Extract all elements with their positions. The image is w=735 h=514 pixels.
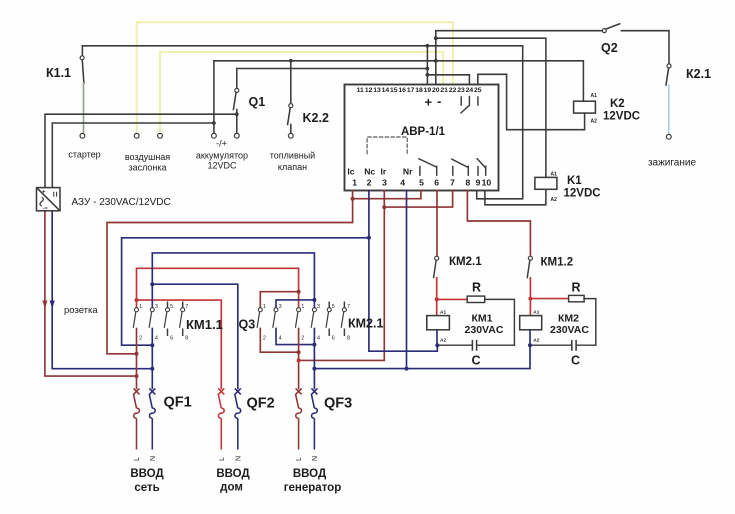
svg-text:-=: -=	[43, 206, 48, 212]
wire: Q3 pole2 top link	[276, 300, 314, 308]
svg-text:A1: A1	[440, 309, 446, 315]
wire: Q3 pole1 top link	[260, 292, 298, 308]
svg-text:9: 9	[476, 178, 481, 188]
svg-text:A2: A2	[440, 337, 446, 343]
breaker QF3	[296, 388, 302, 449]
svg-text:КМ1: КМ1	[472, 313, 493, 325]
wire: pin20 riser and Q2 feed	[436, 31, 603, 85]
wire: pin5 to pin1 link	[353, 191, 421, 199]
wire: charger - output to battery minus	[52, 123, 214, 187]
svg-text:3: 3	[155, 304, 158, 310]
svg-text:1: 1	[352, 178, 357, 188]
svg-text:6: 6	[332, 336, 335, 342]
svg-text:топливный: топливный	[270, 151, 315, 161]
contact: internal pins 9-10	[477, 159, 486, 175]
wire: navy line KM2.1 pole2 to KM2 A2	[314, 345, 530, 368]
svg-text:11: 11	[357, 87, 364, 94]
svg-text:QF2: QF2	[247, 396, 275, 412]
contact KM2.1 pole2	[311, 304, 320, 342]
arrow: socket plug neutral	[50, 301, 55, 309]
wire: pin1 Ic to QF1 pole1 (dark red)	[107, 191, 353, 354]
contact Q3 pole2	[273, 304, 282, 342]
svg-text:Nг: Nг	[403, 167, 413, 177]
svg-text:КМ1.1: КМ1.1	[186, 317, 223, 332]
wire: pin19 riser	[426, 46, 428, 85]
wire: pin2 tee to QF1 pole2	[122, 238, 369, 345]
svg-text:8: 8	[347, 336, 350, 342]
svg-text:2: 2	[263, 336, 266, 342]
svg-text:Q2: Q2	[601, 41, 618, 55]
svg-text:стартер: стартер	[68, 150, 100, 160]
wire: pin9 to +12V bus	[477, 46, 523, 199]
svg-text:ВВОД: ВВОД	[293, 468, 326, 480]
wire: pin20 to K1 coil A1	[436, 38, 546, 177]
svg-text:3: 3	[317, 304, 320, 310]
svg-text:12VDC: 12VDC	[564, 188, 601, 200]
svg-text:КМ2.1: КМ2.1	[348, 317, 383, 331]
wire: Q1 top to pin19 riser	[237, 68, 428, 70]
svg-text:2: 2	[367, 178, 372, 188]
switch K2.2	[290, 61, 292, 104]
svg-text:230VAC: 230VAC	[465, 324, 504, 336]
svg-text:14: 14	[382, 87, 390, 94]
svg-text:заслонка: заслонка	[128, 163, 166, 173]
contact KM2.1 aux (coil circuit)	[435, 256, 439, 260]
node: battery plus terminal	[234, 133, 239, 138]
svg-text:8: 8	[185, 336, 188, 342]
svg-text:R: R	[472, 281, 481, 295]
resistor R of KM1 circuit	[437, 298, 468, 300]
dashed link Nc-Ng	[367, 137, 407, 154]
wire: socket neutral from charger (navy)	[52, 211, 152, 369]
node: starter terminal	[80, 133, 85, 138]
wire: Q3 pole1 bottom link	[260, 329, 298, 353]
svg-text:19: 19	[424, 87, 432, 94]
block ABP-1/1	[345, 85, 499, 191]
wire: pale blue ignition wire	[668, 86, 670, 135]
contact KM1.1 pole3	[164, 302, 173, 342]
contact: internal pins 7-8	[452, 159, 469, 175]
svg-text:К1.1: К1.1	[46, 66, 71, 80]
wire: yellow air-damper wire 1	[137, 22, 453, 133]
svg-text:N: N	[312, 456, 319, 461]
switch Q2	[602, 29, 606, 33]
svg-text:12: 12	[365, 87, 373, 94]
svg-text:C: C	[471, 354, 480, 368]
junction dots	[135, 197, 533, 378]
svg-text:230VAC: 230VAC	[550, 324, 589, 336]
node: fuel valve terminal	[288, 133, 293, 138]
svg-text:4: 4	[279, 336, 282, 342]
wire: pin3 Ig to generator phase node	[299, 191, 385, 361]
wire: pin19 to pin24	[427, 75, 469, 85]
resistor R of KM2 circuit	[530, 298, 568, 300]
svg-text:-: -	[437, 94, 441, 109]
svg-text:АЗУ - 230VAC/12VDC: АЗУ - 230VAC/12VDC	[72, 197, 171, 208]
svg-text:5: 5	[332, 304, 335, 310]
wire: charger + output to Q1 bottom	[45, 114, 237, 187]
relay coil K1	[535, 177, 557, 189]
svg-text:12VDC: 12VDC	[207, 161, 237, 171]
coil KM2 230VAC	[529, 299, 531, 316]
svg-text:4: 4	[317, 336, 320, 342]
svg-text:КМ2.1: КМ2.1	[449, 256, 482, 268]
wire: KM2.1 pole2 bottom to QF3	[313, 329, 315, 389]
svg-text:7: 7	[185, 304, 188, 310]
svg-text:КМ1.2: КМ1.2	[541, 257, 574, 269]
wire: Q3 pole2 bottom link	[276, 329, 314, 345]
svg-text:сеть: сеть	[134, 482, 159, 494]
contact KM1.1 pole2	[149, 304, 158, 342]
arrow: socket plug live	[42, 301, 47, 309]
node: air damper terminal 2	[158, 133, 163, 138]
wire: KM2.1 pole1 bottom to QF3	[298, 329, 300, 389]
svg-text:10: 10	[482, 178, 492, 188]
svg-text:дом: дом	[220, 482, 243, 494]
svg-text:15: 15	[390, 87, 398, 94]
breaker QF2	[218, 388, 224, 449]
svg-text:16: 16	[398, 87, 406, 94]
svg-text:2: 2	[301, 336, 304, 342]
contact KM1.2 aux (coil circuit)	[528, 256, 532, 260]
svg-text:Nc: Nc	[364, 167, 375, 177]
svg-text:L: L	[219, 457, 226, 461]
svg-text:A1: A1	[551, 171, 558, 177]
svg-text:QF1: QF1	[164, 395, 192, 411]
wire: pin2 Nc riser to KM1 A2	[369, 191, 437, 352]
svg-text:7: 7	[347, 304, 350, 310]
svg-text:K2.2: K2.2	[303, 111, 329, 125]
junction dots black	[212, 36, 438, 125]
wire: yellow air-damper wire 2	[160, 52, 443, 133]
svg-text:N: N	[235, 456, 242, 461]
svg-text:25: 25	[474, 87, 482, 94]
svg-text:A1: A1	[533, 309, 539, 315]
QF terminal L/N marks	[134, 456, 319, 461]
capacitor C of KM1 circuit	[437, 344, 514, 346]
svg-text:L: L	[134, 457, 141, 461]
svg-text:клапан: клапан	[278, 162, 307, 172]
svg-text:17: 17	[407, 87, 415, 94]
svg-text:A2: A2	[551, 197, 558, 203]
svg-text:1: 1	[263, 304, 266, 310]
svg-text:1: 1	[139, 304, 142, 310]
wire: KM1.1 pole1 bottom to QF1	[136, 329, 138, 389]
wire: K1 A2 to pin10	[485, 189, 546, 205]
svg-text:розетка: розетка	[64, 305, 98, 316]
switch K1.1	[81, 46, 83, 56]
svg-text:генератор: генератор	[284, 482, 341, 494]
charger AZU box	[37, 188, 61, 211]
svg-text:4: 4	[400, 178, 405, 188]
wire: red branch to QF2 pole1	[137, 300, 222, 388]
svg-text:2: 2	[139, 336, 142, 342]
svg-text:АВР-1/1: АВР-1/1	[401, 126, 446, 138]
svg-text:Ic: Ic	[347, 167, 354, 177]
wire: socket live from charger (dark red)	[45, 211, 137, 376]
contact KM1.1 pole4	[180, 302, 189, 342]
wire: pin6 to KM2.1 coil contact	[436, 191, 438, 256]
svg-text:N: N	[150, 456, 157, 461]
contact Q3 pole1	[257, 304, 266, 342]
svg-text:12VDC: 12VDC	[603, 111, 640, 123]
svg-text:23: 23	[457, 87, 465, 94]
svg-text:аккумулятор: аккумулятор	[196, 151, 248, 161]
contact KM2.1 pole4	[341, 302, 350, 342]
svg-text:C: C	[571, 354, 580, 368]
capacitor C of KM2 circuit	[530, 344, 596, 346]
svg-text:R: R	[572, 281, 581, 295]
switch Q1	[236, 69, 238, 89]
svg-text:8: 8	[466, 178, 471, 188]
svg-text:3: 3	[279, 304, 282, 310]
svg-text:7: 7	[450, 178, 455, 188]
contact: internal pins 5-6	[419, 159, 437, 175]
wire: red phase bus KM1.1 to KM2.1	[137, 268, 299, 307]
svg-text:24: 24	[466, 87, 474, 94]
svg-text:зажигание: зажигание	[648, 158, 697, 169]
contact: internal changeover pins 23-24-25	[461, 97, 478, 113]
wire: green starter wire	[83, 83, 85, 133]
wire: pin7 to pin3	[384, 191, 452, 208]
svg-text:Q3: Q3	[239, 318, 256, 332]
svg-text:21: 21	[440, 87, 448, 94]
svg-text:+: +	[425, 95, 433, 110]
svg-text:КМ2: КМ2	[558, 313, 579, 325]
svg-text:5: 5	[419, 178, 424, 188]
svg-text:6: 6	[434, 178, 439, 188]
wire: K2 A2 to pin25	[478, 74, 585, 129]
node: battery minus terminal	[212, 133, 217, 138]
svg-text:K1: K1	[567, 175, 582, 187]
svg-text:Iг: Iг	[381, 167, 387, 177]
node: ignition terminal	[666, 134, 671, 139]
svg-text:Q1: Q1	[249, 95, 266, 109]
ABP bottom pin labels	[347, 167, 413, 177]
wire: +12V bus K1.1 to pin19/pin9 riser	[82, 45, 522, 47]
node: air damper terminal 1	[134, 133, 139, 138]
contact KM2.1 pole1	[295, 304, 304, 342]
svg-text:QF3: QF3	[324, 396, 352, 412]
svg-text:3: 3	[382, 178, 387, 188]
wire: pin4 Ng riser	[406, 191, 408, 369]
wire: minus bus to K2 coil A1	[214, 61, 584, 101]
contact KM1.1 pole1	[133, 304, 142, 342]
relay coil K2	[574, 101, 596, 113]
svg-text:A2: A2	[591, 118, 598, 124]
svg-text:воздушная: воздушная	[125, 152, 170, 162]
wire: navy neutral bus KM1.1 to KM2.1	[152, 253, 314, 308]
contact KM2.1 pole3	[326, 302, 335, 342]
svg-text:ВВОД: ВВОД	[216, 468, 249, 480]
svg-text:1: 1	[301, 304, 304, 310]
switch K2.1	[667, 64, 671, 68]
svg-text:ВВОД: ВВОД	[130, 468, 163, 480]
svg-text:-/+: -/+	[216, 139, 227, 149]
wire: KM1.1 pole2 bottom to QF1	[151, 329, 153, 389]
svg-text:22: 22	[449, 87, 457, 94]
wire: navy branch to QF2 pole2	[152, 284, 238, 388]
svg-text:6: 6	[170, 336, 173, 342]
breaker QF1	[133, 388, 139, 449]
svg-text:13: 13	[373, 87, 381, 94]
svg-text:A2: A2	[533, 337, 539, 343]
wire: battery minus riser	[213, 61, 215, 134]
coil KM1 230VAC	[436, 299, 438, 315]
svg-text:5: 5	[170, 304, 173, 310]
svg-text:K2: K2	[610, 98, 625, 110]
svg-text:4: 4	[155, 336, 158, 342]
wire: pin8 to KM1.2 contact	[467, 191, 530, 256]
svg-text:+: +	[42, 190, 46, 196]
svg-text:18: 18	[415, 87, 423, 94]
svg-text:L: L	[296, 457, 303, 461]
svg-text:К2.1: К2.1	[686, 67, 711, 81]
svg-text:A1: A1	[591, 93, 598, 99]
ABP top pin numbers 11-25	[357, 87, 482, 94]
